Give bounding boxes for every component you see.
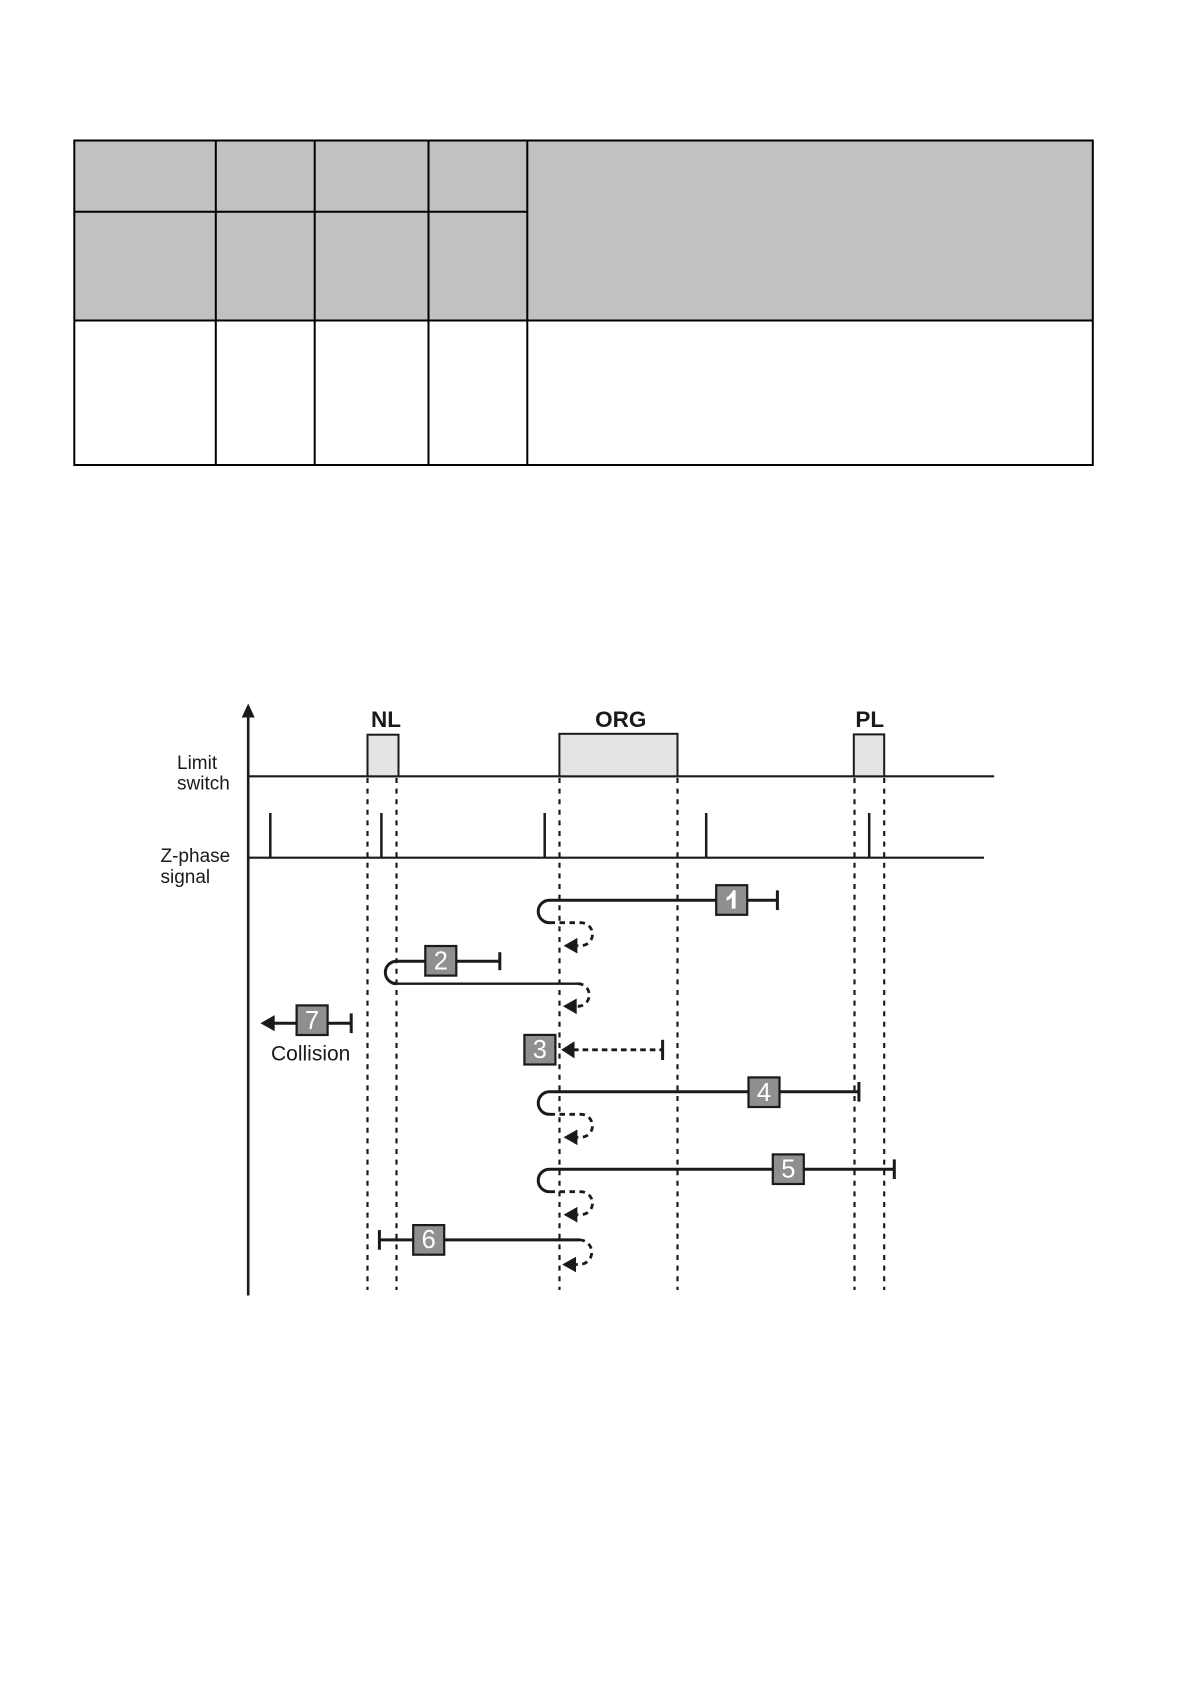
trace 1 end stop tick	[776, 890, 779, 910]
trace 7 line	[272, 1022, 351, 1025]
table column line 1	[215, 140, 217, 465]
svg-text:7: 7	[305, 1007, 319, 1035]
table column line 3	[428, 140, 430, 465]
Z-phase baseline	[248, 857, 984, 859]
svg-text:Collision: Collision	[271, 1042, 350, 1065]
trace 2 solid line with u-turn hook	[385, 961, 499, 984]
svg-text:switch: switch	[177, 774, 230, 795]
trace 2 return arrowhead	[563, 999, 577, 1015]
trace 1 solid line with u-turn hook	[538, 900, 777, 923]
trace 3 left arrowhead	[561, 1041, 574, 1058]
box 7	[297, 1005, 328, 1035]
box 1	[716, 885, 747, 915]
dashed vertical NL right edge	[395, 778, 397, 1290]
trace 2 start stop tick	[498, 952, 501, 970]
svg-text:6: 6	[422, 1226, 436, 1254]
trace 2 dashed return curl	[577, 984, 590, 1007]
box 3	[524, 1035, 555, 1065]
table column line 2	[314, 140, 316, 465]
svg-text:signal: signal	[161, 867, 211, 888]
trace 5 end stop tick	[893, 1159, 896, 1179]
svg-text:Z-phase: Z-phase	[161, 846, 231, 867]
box 4	[749, 1077, 780, 1107]
svg-text:NL: NL	[371, 707, 401, 732]
trace 2 lower leftward-return segment	[397, 983, 578, 985]
box 5	[773, 1154, 804, 1184]
trace 4 return arrowhead	[564, 1130, 578, 1146]
trace 5 return arrowhead	[564, 1207, 578, 1223]
trace 4 end stop tick	[857, 1082, 860, 1102]
trace 6 dashed return curl	[576, 1240, 592, 1265]
dashed vertical ORG right edge	[676, 778, 678, 1290]
trace 5 solid line with u-turn hook	[538, 1169, 894, 1192]
trace 4 dashed return curl	[550, 1114, 593, 1137]
trace 6 start stop tick	[378, 1230, 381, 1250]
table column line 4	[526, 140, 528, 465]
box 2	[425, 946, 456, 976]
axis arrowhead	[242, 704, 255, 718]
table gray header fill	[74, 140, 1093, 320]
svg-text:Limit: Limit	[177, 753, 218, 774]
trace 5 dashed return curl	[550, 1192, 593, 1215]
trace 1 dashed return curl	[550, 923, 593, 946]
dashed vertical PL left edge	[853, 778, 855, 1290]
trace 4 solid line with u-turn hook	[538, 1092, 859, 1115]
trace 7 end stop tick	[350, 1013, 353, 1033]
svg-text:ORG: ORG	[595, 707, 646, 732]
Z-phase pulse 3	[543, 813, 546, 858]
dashed vertical PL right edge	[883, 778, 885, 1290]
table gray/white divider	[74, 320, 1093, 322]
ORG switch pulse rect	[559, 734, 677, 777]
trace 1 return arrowhead	[564, 938, 578, 954]
vertical axis	[247, 715, 250, 1296]
table outer border	[74, 141, 1093, 466]
Z-phase pulse 5	[868, 813, 871, 858]
dashed vertical ORG left edge	[558, 778, 560, 1290]
svg-text:2: 2	[434, 947, 448, 975]
svg-text:4: 4	[757, 1079, 771, 1107]
limit switch baseline	[248, 775, 994, 777]
box 6	[413, 1225, 444, 1255]
trace 6 solid line	[379, 1238, 579, 1241]
Z-phase pulse 1	[269, 813, 272, 858]
trace 3 end stop tick	[661, 1040, 664, 1060]
trace 6 return arrowhead	[562, 1257, 576, 1273]
NL switch pulse rect	[368, 735, 399, 777]
PL switch pulse rect	[854, 734, 884, 776]
svg-text:5: 5	[781, 1155, 795, 1183]
dashed vertical NL left edge	[366, 778, 368, 1290]
trace 3 dashed line	[573, 1048, 663, 1051]
svg-text:PL: PL	[855, 707, 884, 732]
svg-text:3: 3	[533, 1036, 547, 1064]
table header row divider (columns 1-4)	[74, 211, 527, 213]
Z-phase pulse 4	[705, 813, 708, 858]
trace 7 left arrowhead	[260, 1015, 274, 1031]
Z-phase pulse 2	[380, 813, 383, 858]
